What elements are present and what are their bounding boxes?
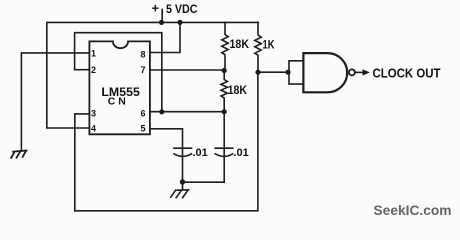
node NAND input bracket junction (285, 70, 290, 75)
NAND gate U2 body (303, 53, 347, 92)
svg-text:18K: 18K (228, 85, 248, 97)
ground GND1 (11, 151, 26, 158)
node R2/C2/pin6 junction (222, 109, 227, 114)
wire pin 8 to +5V rail (150, 22, 180, 52)
wire +5VDC stem (161, 10, 163, 22)
svg-text:8: 8 (140, 50, 145, 60)
svg-text:C N: C N (108, 97, 126, 108)
capacitor C2 .01 (215, 112, 233, 183)
capacitor C1 .01 (174, 148, 192, 182)
wire pin 5 to C1 (150, 129, 183, 148)
svg-text:CLOCK OUT: CLOCK OUT (373, 65, 441, 80)
wire pin 3 output loop to NAND input (75, 72, 258, 211)
wire pin 7 discharge (150, 69, 224, 71)
ground GND2 (171, 182, 189, 198)
resistor R3 1K (255, 22, 261, 72)
resistor R1 18K (222, 22, 228, 70)
NAND gate U2 output bubble (349, 69, 355, 75)
node capacitor ground junction (180, 179, 185, 184)
resistor R2 18K (221, 71, 227, 112)
svg-text:3: 3 (91, 108, 96, 118)
svg-text:5: 5 (140, 124, 145, 134)
wire pin 2 tied to pin 6 (over IC) (75, 33, 162, 112)
svg-text:1: 1 (91, 48, 96, 58)
wire pin 1 to ground (21, 53, 89, 150)
node R3/NAND/loop junction (255, 70, 260, 75)
svg-text:+: + (152, 1, 160, 16)
svg-text:18K: 18K (230, 39, 250, 51)
node pin 8 rail junction (177, 20, 182, 25)
svg-text:7: 7 (140, 65, 145, 75)
label +5 VDC (152, 1, 198, 17)
svg-text:5 VDC: 5 VDC (166, 2, 198, 16)
wire C2 bottom to ground node (183, 181, 225, 183)
svg-text:2: 2 (91, 65, 96, 75)
NAND gate U2 input tie bracket (289, 61, 303, 84)
svg-text:.01: .01 (193, 147, 208, 159)
IC U1 LM555 body (89, 41, 149, 134)
svg-text:1K: 1K (263, 40, 276, 52)
svg-text:6: 6 (140, 108, 145, 118)
wire NAND input from R3 node (258, 71, 289, 73)
wire pin 6 threshold (150, 111, 224, 113)
arrow to CLOCK OUT (363, 69, 370, 75)
wire NAND output (355, 71, 363, 73)
node R1/R2/pin7 junction (222, 68, 227, 73)
svg-text:SeekIC.com: SeekIC.com (374, 202, 452, 218)
node +5VDC junction (159, 20, 164, 25)
svg-text:.01: .01 (234, 147, 249, 159)
node pin2/pin6 tie junction (159, 109, 164, 114)
wire +5V rail and reset pin 4 (47, 22, 259, 128)
svg-text:4: 4 (91, 124, 96, 134)
